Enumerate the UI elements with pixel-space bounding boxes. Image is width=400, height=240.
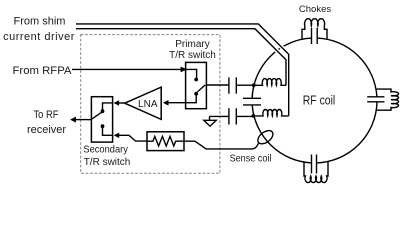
svg-text:To RF: To RF <box>34 109 59 121</box>
svg-text:Sense coil: Sense coil <box>230 153 272 164</box>
svg-text:current driver: current driver <box>3 31 75 43</box>
svg-text:From shim: From shim <box>14 16 66 28</box>
svg-text:RF coil: RF coil <box>303 94 336 108</box>
svg-text:From RFPA: From RFPA <box>13 65 73 77</box>
svg-text:T/R switch: T/R switch <box>169 50 216 61</box>
svg-text:Chokes: Chokes <box>299 4 331 15</box>
svg-text:Primary: Primary <box>175 39 209 50</box>
svg-text:receiver: receiver <box>27 124 66 136</box>
svg-text:T/R switch: T/R switch <box>84 157 131 168</box>
svg-text:LNA: LNA <box>138 99 158 110</box>
svg-text:Secondary: Secondary <box>83 145 128 156</box>
